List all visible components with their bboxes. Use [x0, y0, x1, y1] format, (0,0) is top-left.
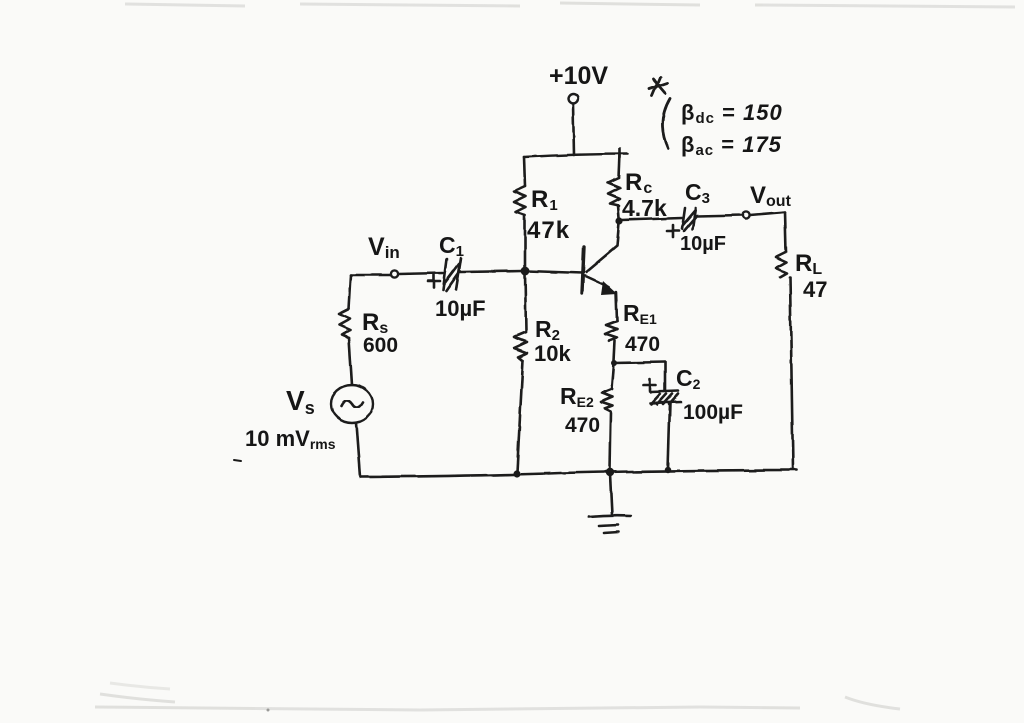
svg-text:10k: 10k — [534, 341, 571, 366]
svg-text:10µF: 10µF — [435, 296, 486, 321]
svg-text:RE1: RE1 — [623, 300, 657, 327]
svg-text:10 mVrms: 10 mVrms — [245, 426, 336, 452]
svg-text:C3: C3 — [685, 179, 710, 207]
svg-text:RE2: RE2 — [560, 383, 594, 410]
svg-text:C1: C1 — [439, 232, 464, 260]
svg-text:47k: 47k — [527, 217, 570, 244]
svg-text:R1: R1 — [531, 186, 559, 214]
svg-text:Vin: Vin — [368, 233, 400, 262]
svg-text:100µF: 100µF — [683, 401, 743, 424]
svg-text:C2: C2 — [676, 365, 701, 392]
svg-text:+10V: +10V — [549, 62, 608, 90]
svg-text:RL: RL — [795, 250, 822, 278]
svg-text:Vout: Vout — [750, 182, 792, 210]
svg-text:600: 600 — [363, 334, 398, 357]
svg-text:47: 47 — [803, 277, 827, 302]
svg-text:Vs: Vs — [286, 385, 315, 418]
svg-text:470: 470 — [625, 333, 660, 356]
svg-text:Rc: Rc — [625, 169, 653, 197]
svg-text:4.7k: 4.7k — [622, 195, 667, 221]
svg-text:βac = 175: βac = 175 — [681, 132, 782, 159]
svg-text:10µF: 10µF — [680, 233, 726, 255]
svg-text:βdc = 150: βdc = 150 — [681, 100, 783, 127]
svg-text:R2: R2 — [535, 316, 560, 344]
svg-text:470: 470 — [565, 414, 600, 437]
svg-text:Rs: Rs — [362, 309, 388, 337]
